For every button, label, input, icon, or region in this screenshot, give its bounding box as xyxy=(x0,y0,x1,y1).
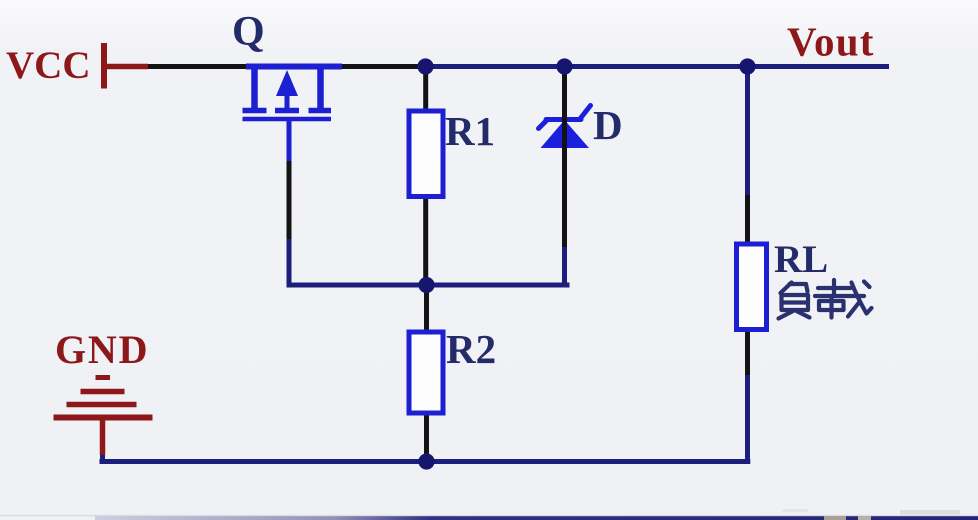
svg-text:VCC: VCC xyxy=(6,44,91,87)
svg-text:R1: R1 xyxy=(445,108,495,154)
svg-text:R2: R2 xyxy=(446,326,496,372)
svg-text:Vout: Vout xyxy=(787,19,875,65)
svg-text:D: D xyxy=(593,102,623,148)
svg-text:Q: Q xyxy=(232,9,265,55)
svg-text:RL: RL xyxy=(774,238,828,281)
svg-text:GND: GND xyxy=(55,327,149,372)
